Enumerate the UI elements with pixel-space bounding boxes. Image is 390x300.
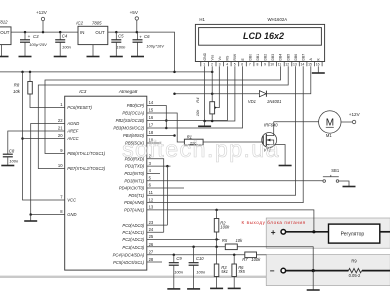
ground under C4 — [54, 56, 67, 58]
wire PB5 pin19 stub — [147, 142, 161, 144]
svg-text:7k5: 7k5 — [238, 269, 245, 274]
svg-text:DB5: DB5 — [286, 54, 290, 61]
svg-text:DB0: DB0 — [248, 54, 252, 61]
svg-text:10k: 10k — [236, 238, 244, 243]
svg-text:0.05-2: 0.05-2 — [349, 273, 361, 278]
ground at LCD pin16 K — [312, 66, 325, 73]
svg-text:11: 11 — [149, 190, 154, 195]
node PD1 branch — [166, 165, 169, 168]
wire PB0 pin14 down-tie — [147, 106, 167, 129]
svg-text:H1: H1 — [199, 17, 205, 22]
svg-text:+12V: +12V — [349, 112, 361, 117]
node pot bottom on ground row — [211, 120, 214, 123]
svg-text:20: 20 — [58, 133, 63, 138]
voltage regulator IC1 7812 — [0, 19, 11, 44]
svg-text:100n: 100n — [174, 269, 184, 274]
IC3 left pin labels — [66, 105, 105, 217]
svg-text:14: 14 — [149, 100, 154, 105]
node C9 tap — [173, 254, 176, 256]
svg-text:IC3: IC3 — [79, 89, 87, 94]
svg-text:12: 12 — [149, 197, 154, 202]
node C10 tap — [192, 246, 195, 249]
ground under R6 — [228, 287, 241, 289]
svg-text:PD2(INT0): PD2(INT0) — [124, 171, 144, 176]
svg-text:PC1(ADC1): PC1(ADC1) — [122, 230, 144, 235]
node PB4 on +5V vertical — [173, 134, 176, 137]
svg-text:PC6(RESET): PC6(RESET) — [67, 105, 92, 110]
svg-text:R/W: R/W — [233, 53, 237, 60]
svg-text:M1: M1 — [326, 133, 332, 138]
svg-text:OUT: OUT — [0, 30, 10, 35]
svg-text:R4: R4 — [195, 97, 200, 103]
wire +5V rail to LCD Vss — [0, 71, 212, 73]
LCD pin number tick separators — [201, 62, 322, 67]
node +5V vertical joins rail — [173, 71, 176, 74]
LCD pin name labels — [203, 52, 321, 60]
svg-text:PD4(XCK/T0): PD4(XCK/T0) — [119, 186, 145, 191]
wire PD3 pin5 to button SB1 — [147, 180, 323, 182]
svg-text:100n: 100n — [196, 269, 206, 274]
capacitor C6 100u*16V — [133, 32, 165, 56]
svg-text:WH1602A: WH1602A — [268, 17, 288, 22]
svg-text:SB1: SB1 — [331, 168, 340, 173]
svg-text:softech.pp.ua: softech.pp.ua — [122, 136, 280, 162]
wire PD5 pin11 to LCD DB6 — [147, 66, 296, 195]
svg-text:OUT: OUT — [95, 30, 105, 35]
svg-text:+: + — [28, 34, 31, 39]
svg-text:C5: C5 — [118, 34, 124, 39]
svg-text:14: 14 — [301, 62, 305, 66]
wire R1 to MOSFET gate — [203, 141, 263, 143]
svg-text:DB2: DB2 — [264, 54, 268, 61]
svg-text:25: 25 — [149, 234, 154, 239]
svg-text:RS: RS — [226, 55, 230, 60]
node R5 left junction — [215, 246, 218, 249]
wire VD1 cathode to LCD backlight A — [266, 66, 310, 93]
svg-text:DB3: DB3 — [271, 54, 275, 61]
wire motor to +12V terminal — [341, 121, 352, 123]
svg-text:100k: 100k — [220, 225, 230, 230]
resistor R7 100k — [242, 252, 266, 262]
ground at pin8 — [24, 215, 37, 222]
svg-text:16: 16 — [149, 115, 154, 120]
node VCC branch — [21, 71, 24, 74]
resistor R1 220 — [184, 134, 203, 145]
node tie on PB3 row — [165, 127, 168, 130]
ground at VT1 source — [279, 165, 292, 167]
node gnd stem joint — [203, 120, 206, 123]
svg-text:13: 13 — [149, 205, 154, 210]
svg-text:PC5(ADC5/SCL): PC5(ADC5/SCL) — [113, 260, 145, 265]
wire GND pin8 — [31, 214, 65, 216]
svg-text:+5V: +5V — [130, 10, 139, 15]
svg-text:Vo: Vo — [218, 56, 222, 60]
svg-text:24: 24 — [149, 227, 154, 232]
ground at minus wire — [307, 289, 320, 291]
svg-text:27: 27 — [149, 249, 154, 254]
wire LCD GND / RW ground row — [205, 66, 235, 121]
svg-text:VCC: VCC — [67, 198, 77, 203]
svg-text:7812: 7812 — [0, 19, 8, 24]
svg-text:IN: IN — [80, 30, 84, 35]
svg-text:5: 5 — [234, 62, 236, 66]
shunt resistor R9 0.05-2 — [349, 258, 390, 278]
svg-text:7805: 7805 — [92, 20, 102, 25]
wire VCC branch down to pin7 — [23, 72, 65, 200]
svg-text:10k: 10k — [195, 109, 200, 116]
svg-text:10: 10 — [58, 163, 63, 168]
page separator line — [0, 276, 390, 278]
wire pot top rail from +5V vertical — [175, 93, 260, 95]
wire PD2 pin4 stub — [147, 172, 160, 174]
svg-text:PC3(ADC3): PC3(ADC3) — [122, 245, 144, 250]
ground at SB1 — [343, 186, 356, 188]
svg-text:21: 21 — [58, 126, 63, 131]
wire 12V rail — [11, 31, 78, 33]
LCD pin numbers strip — [203, 62, 319, 66]
wire AGND pin22 down to GND pin8 — [31, 124, 65, 215]
wire PC2 pin25 — [147, 238, 220, 240]
motor M1 — [319, 111, 341, 138]
ground under C6 — [131, 56, 144, 58]
svg-text:100n: 100n — [117, 44, 127, 49]
minus terminal — [270, 267, 349, 276]
svg-text:13: 13 — [293, 62, 297, 66]
IC3 left pin numbers — [58, 102, 63, 214]
wire PD7 pin13 to plus output — [147, 210, 314, 232]
svg-text:7: 7 — [249, 62, 251, 66]
svg-text:100k: 100k — [251, 257, 261, 262]
svg-text:GND: GND — [67, 212, 76, 217]
svg-text:26: 26 — [149, 242, 154, 247]
svg-text:VD1: VD1 — [248, 99, 256, 104]
wire PB1 pin15 to gate resistor R1 — [147, 113, 185, 142]
svg-text:100µ*16V: 100µ*16V — [146, 43, 164, 48]
wire PB2 pin16 to LCD RS — [147, 66, 228, 120]
wire minus to ground — [312, 271, 314, 290]
ground under IC1 — [0, 45, 9, 57]
wire PD0 pin2 down-link — [147, 159, 164, 232]
svg-text:12: 12 — [285, 62, 289, 66]
svg-text:100µ*25V: 100µ*25V — [29, 42, 47, 47]
svg-text:R5: R5 — [222, 238, 228, 243]
ground under C3 — [19, 56, 32, 58]
svg-text:+12V: +12V — [36, 10, 48, 15]
plus terminal — [271, 228, 329, 237]
IC3 right pin labels — [113, 103, 145, 265]
wire 5V rail top — [108, 32, 175, 72]
LCD module H1 WH1602A — [195, 17, 324, 62]
ground under C8 — [1, 165, 14, 167]
node R6 top tap — [233, 254, 236, 256]
voltage regulator IC2 7805 — [76, 20, 108, 44]
svg-text:DB4: DB4 — [279, 54, 283, 61]
svg-text:PC2(ADC2): PC2(ADC2) — [122, 237, 144, 242]
node C4 junction — [59, 31, 62, 34]
svg-text:18: 18 — [149, 130, 154, 135]
wire PC1 pin24 — [147, 231, 164, 233]
+12V supply terminal — [36, 10, 48, 32]
node R8 branch — [29, 71, 32, 74]
ground under R3 — [210, 287, 223, 289]
svg-text:PC0(ADC0): PC0(ADC0) — [122, 223, 144, 228]
svg-text:Atmega8: Atmega8 — [118, 89, 138, 94]
ground under C5 — [110, 56, 123, 58]
node +5V tap — [136, 31, 139, 34]
node rail B on +5V vertical — [173, 92, 176, 95]
svg-text:100n: 100n — [9, 159, 19, 164]
svg-text:PB6(XTAL1/TOSC1): PB6(XTAL1/TOSC1) — [67, 151, 105, 156]
svg-text:PD6(AIN0): PD6(AIN0) — [124, 200, 145, 205]
node +12V tap — [42, 31, 45, 34]
svg-text:−: − — [270, 267, 275, 276]
svg-text:C9: C9 — [176, 256, 182, 261]
node pot top junction — [211, 92, 214, 95]
svg-text:DB6: DB6 — [294, 54, 298, 61]
capacitor C3 100u*25V — [20, 32, 47, 56]
svg-text:+: + — [139, 34, 142, 39]
transistor VT1 IRF640 — [262, 122, 285, 166]
node minus wire junction — [312, 269, 315, 272]
capacitor C9 100n — [169, 255, 184, 289]
svg-text:R9: R9 — [351, 258, 357, 263]
potentiometer R4 10k — [195, 66, 220, 121]
wire R5 to minus node — [237, 247, 313, 271]
ground pin IC2 — [87, 45, 100, 57]
wire PC5 pin28 stub — [147, 261, 162, 263]
wire PB3 pin17 to LCD E — [147, 66, 243, 128]
wire AVCC pin20 — [23, 138, 65, 140]
svg-text:PB2(SS/OC1B): PB2(SS/OC1B) — [116, 118, 145, 123]
wire PC4 pin27 row — [147, 254, 245, 256]
svg-text:6: 6 — [241, 62, 243, 66]
svg-text:Vss: Vss — [211, 55, 215, 61]
svg-text:LCD 16x2: LCD 16x2 — [243, 31, 284, 41]
svg-text:PD1(TXD): PD1(TXD) — [125, 164, 145, 169]
svg-text:1N4001: 1N4001 — [267, 99, 282, 104]
capacitor C8 100n — [3, 148, 19, 165]
capacitor C5 100n — [111, 32, 126, 56]
resistor R3 5k1 — [214, 247, 228, 288]
button SB1 — [323, 168, 349, 186]
svg-text:16: 16 — [316, 62, 320, 66]
svg-text:+: + — [271, 228, 276, 237]
svg-text:C10: C10 — [196, 256, 204, 261]
wire PC3 pin26 row with C10 tap — [147, 246, 226, 248]
resistor R2 100k — [214, 210, 230, 247]
wire PB4 pin18 to +5V vertical — [147, 135, 175, 137]
svg-text:11: 11 — [278, 62, 282, 66]
svg-text:10k: 10k — [13, 89, 21, 94]
resistor R5 10k — [222, 238, 243, 250]
svg-text:22: 22 — [58, 118, 63, 123]
svg-text:PB1(OC1A): PB1(OC1A) — [122, 111, 144, 116]
svg-text:PB3(MOSI/OC2): PB3(MOSI/OC2) — [113, 126, 144, 131]
node AVCC joins VCC branch — [21, 137, 24, 140]
node R2 bottom on PC2 row — [215, 238, 218, 241]
svg-text:28: 28 — [149, 257, 154, 262]
node pin8 ground junction — [29, 213, 32, 216]
+12V motor terminal — [349, 112, 361, 124]
svg-text:PD3(INT1): PD3(INT1) — [124, 178, 144, 183]
+5V supply terminal — [130, 10, 139, 32]
regulator panel top (+) — [266, 218, 390, 248]
svg-text:IRF640: IRF640 — [264, 123, 278, 128]
diode VD1 1N4001 — [248, 91, 282, 105]
wire PD6 pin12 to LCD DB7 — [147, 66, 303, 202]
svg-text:R8: R8 — [14, 82, 20, 87]
svg-text:C8: C8 — [9, 148, 15, 153]
wire LCD DB4 to PB6 pin9 — [45, 66, 281, 153]
svg-text:100n: 100n — [62, 44, 72, 49]
microcontroller IC3 Atmega8 — [65, 89, 147, 270]
node tie on PB2 row — [165, 119, 168, 122]
wire AREF pin21 to C8 — [8, 131, 65, 154]
node C5 junction — [115, 31, 118, 34]
svg-text:4: 4 — [226, 62, 228, 66]
svg-text:Регулятор: Регулятор — [341, 231, 365, 237]
ground at LCD pin1 — [198, 121, 211, 126]
svg-text:PB0(ICP): PB0(ICP) — [127, 103, 145, 108]
svg-text:2: 2 — [211, 62, 213, 66]
node R2 top — [215, 209, 218, 212]
svg-text:C3: C3 — [33, 34, 39, 39]
svg-text:15: 15 — [308, 62, 312, 66]
svg-text:GND: GND — [203, 52, 207, 60]
capacitor C4 100n — [55, 32, 71, 56]
wire LCD Vss down to pot top — [211, 66, 213, 101]
svg-text:15: 15 — [149, 108, 154, 113]
svg-text:PC4(ADC4/SDA): PC4(ADC4/SDA) — [113, 252, 145, 257]
svg-text:AVCC: AVCC — [66, 136, 79, 141]
node LCD Vss rail join — [211, 71, 214, 74]
wire PC0 pin23 — [147, 224, 168, 226]
svg-text:23: 23 — [149, 220, 154, 225]
svg-text:5k1: 5k1 — [221, 269, 228, 274]
wire PD4 pin6 stub — [147, 187, 184, 189]
capacitor C10 100n — [189, 247, 206, 289]
wire PD1 pin3 down-link — [147, 165, 171, 167]
svg-text:DB7: DB7 — [301, 54, 305, 61]
node plus wire junction — [312, 230, 315, 233]
svg-text:C4: C4 — [62, 33, 68, 38]
svg-text:PD7(AIN1): PD7(AIN1) — [124, 208, 145, 213]
svg-text:8: 8 — [257, 62, 259, 66]
resistor R8 10k — [13, 72, 65, 108]
ground under C9 — [167, 288, 180, 290]
svg-text:IC2: IC2 — [76, 20, 83, 25]
svg-text:C6: C6 — [144, 34, 150, 39]
svg-text:9: 9 — [264, 62, 266, 66]
regulator panel bottom (-) — [266, 255, 390, 286]
node C3 junction — [24, 31, 27, 34]
regulator box — [329, 224, 390, 243]
svg-text:DB1: DB1 — [256, 54, 260, 61]
IC3 right pin numbers — [149, 100, 154, 262]
wire LCD DB5 to PB7 pin10 — [38, 66, 288, 168]
svg-text:AREF: AREF — [66, 129, 79, 134]
svg-text:10: 10 — [270, 62, 274, 66]
svg-text:17: 17 — [149, 123, 154, 128]
ground under C10 — [187, 288, 200, 290]
svg-text:PD5(T1): PD5(T1) — [129, 193, 145, 198]
svg-text:1: 1 — [203, 62, 205, 66]
svg-text:К выходу блока питания: К выходу блока питания — [242, 220, 306, 225]
resistor R6 7k5 — [232, 255, 246, 288]
svg-text:3: 3 — [219, 62, 221, 66]
wire PD1 to PC0 link — [166, 166, 168, 225]
svg-text:PB7(XTAL2/TOSC2): PB7(XTAL2/TOSC2) — [67, 166, 105, 171]
wire drain to motor — [274, 121, 319, 123]
svg-text:AGND: AGND — [66, 121, 79, 126]
svg-text:R7: R7 — [242, 257, 248, 262]
